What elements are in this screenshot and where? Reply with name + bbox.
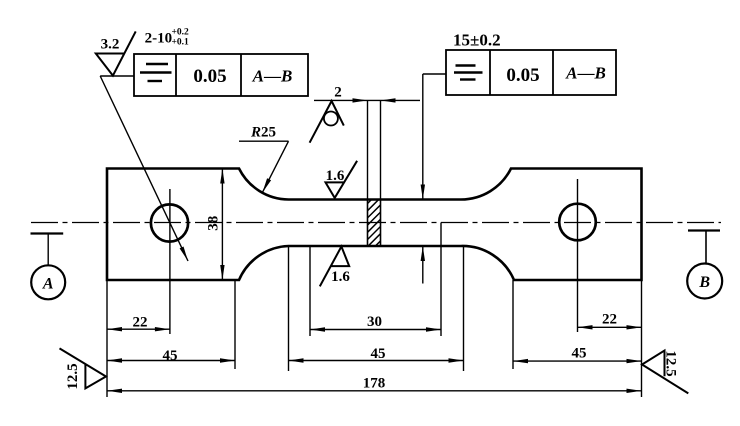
svg-text:3.2: 3.2 bbox=[101, 37, 120, 53]
svg-text:0.05: 0.05 bbox=[193, 66, 226, 87]
svg-text:A—B: A—B bbox=[565, 64, 606, 83]
svg-text:45: 45 bbox=[572, 346, 587, 362]
svg-text:45: 45 bbox=[163, 348, 178, 364]
svg-text:22: 22 bbox=[602, 312, 617, 328]
svg-text:0.05: 0.05 bbox=[506, 65, 539, 86]
svg-text:12.5: 12.5 bbox=[65, 363, 81, 389]
svg-text:+0.2: +0.2 bbox=[172, 28, 190, 38]
svg-text:15±0.2: 15±0.2 bbox=[453, 31, 501, 50]
svg-text:12.5: 12.5 bbox=[663, 350, 679, 376]
svg-text:22: 22 bbox=[133, 315, 148, 331]
svg-text:R25: R25 bbox=[250, 125, 276, 141]
svg-text:1.6: 1.6 bbox=[326, 168, 345, 184]
svg-text:A: A bbox=[42, 276, 54, 293]
svg-text:30: 30 bbox=[367, 314, 382, 330]
svg-text:2: 2 bbox=[334, 85, 342, 101]
svg-text:178: 178 bbox=[363, 376, 386, 392]
svg-text:2-10: 2-10 bbox=[145, 31, 173, 47]
svg-text:38: 38 bbox=[205, 216, 221, 231]
svg-text:+0.1: +0.1 bbox=[172, 38, 190, 48]
svg-text:1.6: 1.6 bbox=[331, 269, 350, 285]
svg-text:A—B: A—B bbox=[252, 67, 293, 86]
svg-text:45: 45 bbox=[371, 346, 386, 362]
svg-text:B: B bbox=[698, 274, 710, 291]
